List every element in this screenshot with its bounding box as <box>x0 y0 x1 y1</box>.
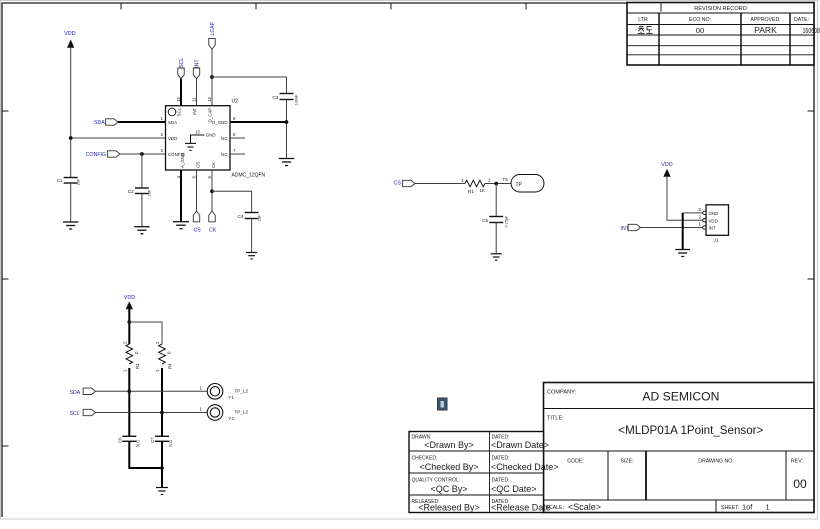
ground (C6/C7) <box>156 488 168 495</box>
svg-text:<QC Date>: <QC Date> <box>491 484 537 494</box>
wire junction to C3 <box>212 77 287 94</box>
ground (C1) <box>63 222 78 229</box>
revision record table <box>627 3 820 66</box>
node VDD junction <box>69 136 73 140</box>
wire SDA line <box>96 390 208 392</box>
ground (C5) <box>491 254 502 260</box>
wire pin9 D_GND <box>230 121 287 123</box>
svg-text:C6: C6 <box>117 437 122 443</box>
svg-text:<Scale>: <Scale> <box>568 502 601 512</box>
power VDD (left rail) <box>64 31 75 48</box>
svg-text:VDD: VDD <box>64 31 75 37</box>
node branch junction <box>127 320 131 324</box>
svg-text:AD SEMICON: AD SEMICON <box>642 390 719 404</box>
capacitor C5 <box>482 215 508 228</box>
svg-text:A_GND: A_GND <box>180 153 185 168</box>
wire C2 to ground <box>141 194 143 227</box>
wire pin6 to port <box>211 170 213 211</box>
svg-text:DRAWING NO:: DRAWING NO: <box>698 459 734 465</box>
port CK (pin6) <box>209 211 217 233</box>
test point Y1 TP_L2 <box>200 384 249 401</box>
svg-text:SCL: SCL <box>179 58 185 68</box>
wire C3 to ground through pin9 node <box>286 100 288 159</box>
port LCAP <box>209 21 216 49</box>
svg-text:Y1: Y1 <box>228 395 234 400</box>
wire R1 to TP <box>485 183 511 185</box>
svg-text:1uF: 1uF <box>148 189 152 196</box>
wire R3 down to C6 <box>128 368 130 436</box>
port SCL (bottom) <box>70 409 96 417</box>
wire C4 to ground <box>251 219 253 253</box>
svg-text:00: 00 <box>696 26 704 35</box>
capacitor C2 <box>128 188 152 197</box>
wire pin5 to port <box>196 170 198 211</box>
svg-text:NC: NC <box>221 152 227 157</box>
svg-text:00: 00 <box>793 477 807 491</box>
svg-text:D_GND: D_GND <box>212 120 227 125</box>
svg-text:COMPANY:: COMPANY: <box>547 390 577 396</box>
port CONFIG <box>86 151 120 158</box>
svg-text:ADMC_12QFN: ADMC_12QFN <box>232 173 266 179</box>
ground (C4) <box>246 253 257 259</box>
svg-text:R1: R1 <box>468 189 474 194</box>
svg-text:<Release Date: <Release Date <box>491 503 551 513</box>
svg-text:D_CAP: D_CAP <box>207 108 212 123</box>
svg-text:LTR: LTR <box>638 17 648 23</box>
border tick over table <box>660 3 662 12</box>
svg-text:SIZE:: SIZE: <box>621 459 634 465</box>
svg-text:0.75pF: 0.75pF <box>505 215 509 228</box>
wire branch to R4 <box>129 322 162 344</box>
capacitor C4 <box>238 213 262 222</box>
svg-text:<Checked Date>: <Checked Date> <box>491 462 559 472</box>
svg-text:SDA: SDA <box>70 390 81 396</box>
power VDD (pullups) <box>124 295 135 309</box>
svg-text:12: 12 <box>176 96 181 101</box>
node CONFIG/C2 junction <box>140 152 144 156</box>
svg-text:LCAP: LCAP <box>210 21 216 35</box>
svg-text:CS: CS <box>394 181 402 187</box>
resistor R1 1K <box>461 178 491 195</box>
test point Y2 TP_L2 <box>200 405 249 422</box>
svg-text:SCL: SCL <box>176 107 181 116</box>
port SCL (top) <box>178 58 185 79</box>
svg-text:DATED:: DATED: <box>492 456 510 462</box>
svg-text:U2: U2 <box>232 99 239 105</box>
wire pin4 A_GND <box>180 170 182 222</box>
small blue marker icon <box>438 398 448 410</box>
svg-text:C4: C4 <box>238 214 244 219</box>
svg-text:Y2: Y2 <box>228 416 234 421</box>
svg-text:1uF: 1uF <box>77 178 81 185</box>
power VDD (J1) <box>661 162 672 177</box>
wire R4 down to C7 <box>161 368 163 436</box>
svg-text:SHEET:: SHEET: <box>721 505 739 511</box>
wire VDD rail vertical <box>70 48 72 178</box>
node SCL/R4 junction <box>160 411 164 415</box>
node common junction <box>160 466 164 470</box>
svg-text:APPROVED:: APPROVED: <box>750 17 780 23</box>
svg-text:100nF: 100nF <box>295 94 299 105</box>
connector J1 <box>699 205 729 243</box>
svg-text:CHECKED:: CHECKED: <box>412 456 438 462</box>
svg-text:CK: CK <box>211 162 216 168</box>
svg-text:<Drawn By>: <Drawn By> <box>424 440 474 450</box>
port INT (top) <box>193 59 200 79</box>
ground (pin4) <box>173 222 189 229</box>
wire pin3 GND of J1 <box>683 212 703 214</box>
resistor R3 <box>122 341 140 372</box>
svg-text:1: 1 <box>766 503 770 512</box>
svg-text:NC: NC <box>221 136 227 141</box>
svg-text:1K: 1K <box>480 188 487 193</box>
svg-text:CK: CK <box>209 228 217 234</box>
svg-text:VDD: VDD <box>124 295 135 301</box>
svg-text:QUALITY CONTROL:: QUALITY CONTROL: <box>412 478 461 484</box>
svg-text:SDA: SDA <box>94 120 105 126</box>
wire junction to C5 <box>495 184 497 217</box>
svg-text:TP_L2: TP_L2 <box>235 410 249 415</box>
wire junction to C4 <box>212 191 252 212</box>
pin 7 stub <box>230 153 245 155</box>
wire SCL to pin12 <box>180 79 182 106</box>
port SDA (bottom) <box>70 388 96 396</box>
svg-text:CS: CS <box>194 228 202 234</box>
svg-text:C1: C1 <box>57 178 63 183</box>
svg-text:DATED:: DATED: <box>492 478 510 484</box>
svg-text:J1: J1 <box>714 238 719 243</box>
wire C1 to ground <box>70 183 72 222</box>
svg-text:INT: INT <box>709 226 716 231</box>
node SDA/R3 junction <box>127 389 131 393</box>
svg-text:GND: GND <box>709 211 719 216</box>
title block: approvals table <box>409 432 559 513</box>
wire LCAP to pin10 <box>211 49 213 106</box>
svg-text:PARK: PARK <box>754 25 777 35</box>
svg-text:<QC By>: <QC By> <box>430 484 467 494</box>
wire C5 to ground <box>495 223 497 254</box>
svg-text:C5: C5 <box>482 218 488 223</box>
svg-text:<Drawn Date>: <Drawn Date> <box>491 440 549 450</box>
svg-text:GND: GND <box>206 133 216 138</box>
svg-text:REV:: REV: <box>791 459 803 465</box>
svg-text:VDD: VDD <box>709 218 718 223</box>
svg-text:TS: TS <box>503 177 509 182</box>
wire INT to pin11 <box>196 79 198 106</box>
svg-text:160608: 160608 <box>803 26 820 35</box>
capacitor C3 <box>272 94 298 106</box>
svg-text:N.C: N.C <box>168 440 173 447</box>
wire VDD to pin2 of J1 <box>667 177 703 221</box>
wire C7 bottom to ground <box>161 441 163 487</box>
svg-text:13: 13 <box>195 129 200 134</box>
svg-text:1of: 1of <box>742 503 753 512</box>
svg-text:DATE:: DATE: <box>794 17 809 23</box>
wire port to R1 <box>415 183 465 185</box>
wire INT to pin1 of J1 <box>641 227 703 229</box>
svg-text:ECO NO:: ECO NO: <box>689 17 711 23</box>
svg-text:C2: C2 <box>128 189 134 194</box>
svg-text:C3: C3 <box>272 95 278 100</box>
test point TP <box>503 175 545 193</box>
ground (J1) <box>675 250 690 257</box>
svg-text:TITLE:: TITLE: <box>547 416 564 422</box>
node pin9 junction <box>285 120 289 124</box>
ground (C2) <box>134 227 149 234</box>
node TP junction <box>494 182 498 186</box>
wire VDD stem <box>128 309 130 344</box>
svg-text:CS: CS <box>196 162 201 168</box>
port INT (to J1) <box>621 224 641 232</box>
svg-text:R4: R4 <box>168 363 173 369</box>
op IC U2 body <box>161 96 266 178</box>
wire SCL line <box>96 412 208 414</box>
wire CONFIG to pin3 <box>120 153 166 155</box>
svg-text:TP_L2: TP_L2 <box>235 389 249 394</box>
pin 8 stub <box>230 137 245 139</box>
wire VDD to pin2 <box>71 137 166 139</box>
svg-text:VDD: VDD <box>661 162 672 168</box>
svg-text:11: 11 <box>191 97 196 102</box>
svg-text:1uF: 1uF <box>258 214 262 221</box>
svg-text:SCL: SCL <box>70 411 80 417</box>
svg-text:<MLDP01A 1Point_Sensor>: <MLDP01A 1Point_Sensor> <box>618 423 763 437</box>
ground (C3/D_GND) <box>279 159 294 166</box>
capacitor C1 <box>57 178 81 186</box>
svg-text:CODE:: CODE: <box>567 459 583 465</box>
svg-text:CONFIG: CONFIG <box>86 152 106 158</box>
svg-text:N.C: N.C <box>136 440 141 447</box>
port SDA <box>94 119 118 126</box>
svg-text:TP: TP <box>516 182 523 188</box>
title block: main <box>544 383 815 513</box>
wire SDA to pin1 <box>118 121 166 123</box>
wire junction to C2 <box>141 154 143 188</box>
wire C6 bottom to common <box>129 441 162 468</box>
node LCAP/C3 junction <box>210 75 214 79</box>
svg-text:INT: INT <box>192 107 197 114</box>
svg-text:SDA: SDA <box>168 120 177 125</box>
svg-text:INT: INT <box>195 59 201 68</box>
svg-text:<Released By>: <Released By> <box>418 503 480 513</box>
port CS (to R1) <box>394 180 416 186</box>
svg-text:<Checked By>: <Checked By> <box>419 462 478 472</box>
revision row 1 LTR glyphs (Korean 초도) <box>638 26 653 33</box>
capacitor C6 <box>117 436 140 447</box>
svg-text:VDD: VDD <box>168 136 177 141</box>
port CS (pin5) <box>193 211 201 233</box>
capacitor C7 <box>150 436 173 447</box>
svg-text:10: 10 <box>207 96 212 101</box>
resistor R4 <box>155 341 173 372</box>
node pin6/C4 junction <box>210 189 214 193</box>
svg-text:R3: R3 <box>135 363 140 369</box>
svg-text:REVISION RECORD: REVISION RECORD <box>694 6 747 12</box>
svg-text:C7: C7 <box>150 437 155 443</box>
